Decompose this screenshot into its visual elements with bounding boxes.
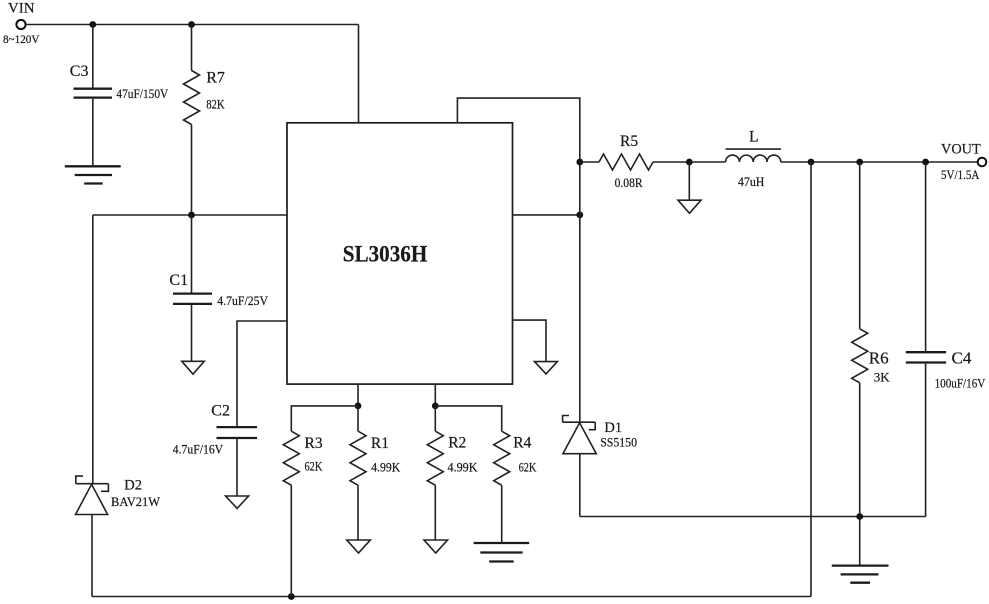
svg-text:L: L <box>749 129 758 146</box>
svg-text:R1: R1 <box>371 435 389 452</box>
svg-text:100uF/16V: 100uF/16V <box>935 376 986 391</box>
wire IC left pin to C2 <box>237 321 287 426</box>
ground arrow R2 <box>424 540 448 553</box>
svg-text:R5: R5 <box>620 133 638 150</box>
svg-text:C2: C2 <box>211 403 230 420</box>
svg-text:0.08R: 0.08R <box>615 175 643 190</box>
svg-text:82K: 82K <box>206 97 225 112</box>
svg-text:VOUT: VOUT <box>941 142 981 158</box>
wire IC bottom pin 2 <box>434 384 436 406</box>
node junction switch-ICpin <box>576 212 583 219</box>
wire IC right pin 2 to ground <box>513 320 547 362</box>
ground arrow R1 <box>347 540 371 553</box>
resistor R2 <box>427 406 443 540</box>
wire mid-left rail <box>93 214 287 216</box>
svg-text:R4: R4 <box>513 434 531 451</box>
svg-text:SS5150: SS5150 <box>600 436 637 450</box>
svg-text:C3: C3 <box>70 63 89 80</box>
resistor R3 <box>283 431 299 596</box>
ground arrow IC pin <box>535 362 558 374</box>
capacitor C2 <box>217 427 258 496</box>
capacitor C4 <box>906 162 946 517</box>
node junction R7-C1-rail <box>188 212 195 219</box>
svg-text:D1: D1 <box>604 420 622 436</box>
inductor L <box>726 149 782 162</box>
ground earth R4 <box>474 543 530 562</box>
svg-text:62K: 62K <box>519 459 537 474</box>
node junction VIN-R7 <box>188 21 195 28</box>
resistor R1 <box>350 406 366 540</box>
node junction pin1-R3-R1 <box>355 403 362 410</box>
node junction pin2-R2-R4 <box>432 403 439 410</box>
svg-text:5V/1.5A: 5V/1.5A <box>941 167 980 182</box>
node junction bottomrail-R3 <box>288 593 295 600</box>
resistor R7 <box>184 25 200 216</box>
svg-text:47uF/150V: 47uF/150V <box>116 86 168 101</box>
svg-text:4.7uF/25V: 4.7uF/25V <box>217 294 268 308</box>
terminal VOUT <box>978 158 987 167</box>
wire top input rail <box>27 24 359 26</box>
wire switch node vertical to D1 <box>579 162 581 422</box>
svg-text:4.99K: 4.99K <box>448 459 479 474</box>
svg-text:4.7uF/16V: 4.7uF/16V <box>173 442 224 456</box>
node junction out-R6 <box>856 159 863 166</box>
wire IC top pin 2 to switch node <box>457 98 579 162</box>
terminal VIN <box>16 20 25 29</box>
ground arrow R5 node <box>678 200 701 213</box>
node junction out-C4 <box>922 159 929 166</box>
wire R5 node to inductor <box>689 161 725 163</box>
wire output rail <box>781 161 978 163</box>
svg-text:R6: R6 <box>869 349 889 368</box>
svg-text:C1: C1 <box>169 272 188 289</box>
svg-text:3K: 3K <box>874 369 891 384</box>
svg-text:4.99K: 4.99K <box>371 460 401 475</box>
node junction switch-R5 <box>576 159 583 166</box>
ground earth C3 <box>65 166 121 183</box>
svg-text:R2: R2 <box>448 435 466 452</box>
capacitor C3 <box>74 25 113 166</box>
node junction R5-L-gnd <box>686 159 693 166</box>
svg-text:VIN: VIN <box>8 0 35 16</box>
ground arrow C2 <box>226 496 249 508</box>
ground arrow C1 <box>182 361 204 374</box>
svg-text:C4: C4 <box>952 349 972 368</box>
wire right vertical to bottom rail <box>810 162 812 597</box>
diode D1 SS5150 <box>563 416 597 517</box>
svg-text:R3: R3 <box>305 435 323 452</box>
node junction anode rail-R6-ground <box>856 513 863 520</box>
diode D2 BAV21W <box>76 476 109 596</box>
resistor R5 <box>580 154 690 170</box>
svg-text:BAV21W: BAV21W <box>111 495 160 509</box>
wire drop to IC top pin 1 <box>358 25 360 123</box>
ground earth right <box>832 566 889 583</box>
wire left drop to D2 <box>92 215 94 484</box>
wire pin1 to R3 <box>291 406 358 431</box>
svg-text:D2: D2 <box>124 477 142 493</box>
wire stem to ground arrow <box>688 162 690 200</box>
svg-text:R7: R7 <box>206 69 225 86</box>
node junction VIN-C3 <box>89 21 96 28</box>
node junction out-bottomrail <box>808 159 815 166</box>
wire IC right pin 1 to switch node <box>513 214 580 216</box>
wire pin2 to R4 <box>435 406 501 431</box>
wire D1 anode rail <box>580 516 926 518</box>
IC U1 SL3036H <box>287 123 513 384</box>
wire IC bottom pin 1 <box>357 384 359 406</box>
resistor R6 <box>852 162 868 517</box>
wire ground stem <box>859 517 861 566</box>
svg-text:62K: 62K <box>305 459 323 474</box>
wire bottom rail <box>92 596 811 598</box>
svg-text:47uH: 47uH <box>738 174 765 189</box>
resistor R4 <box>494 431 510 542</box>
svg-text:8~120V: 8~120V <box>3 34 40 46</box>
svg-text:SL3036H: SL3036H <box>343 242 428 267</box>
capacitor C1 <box>173 215 212 361</box>
